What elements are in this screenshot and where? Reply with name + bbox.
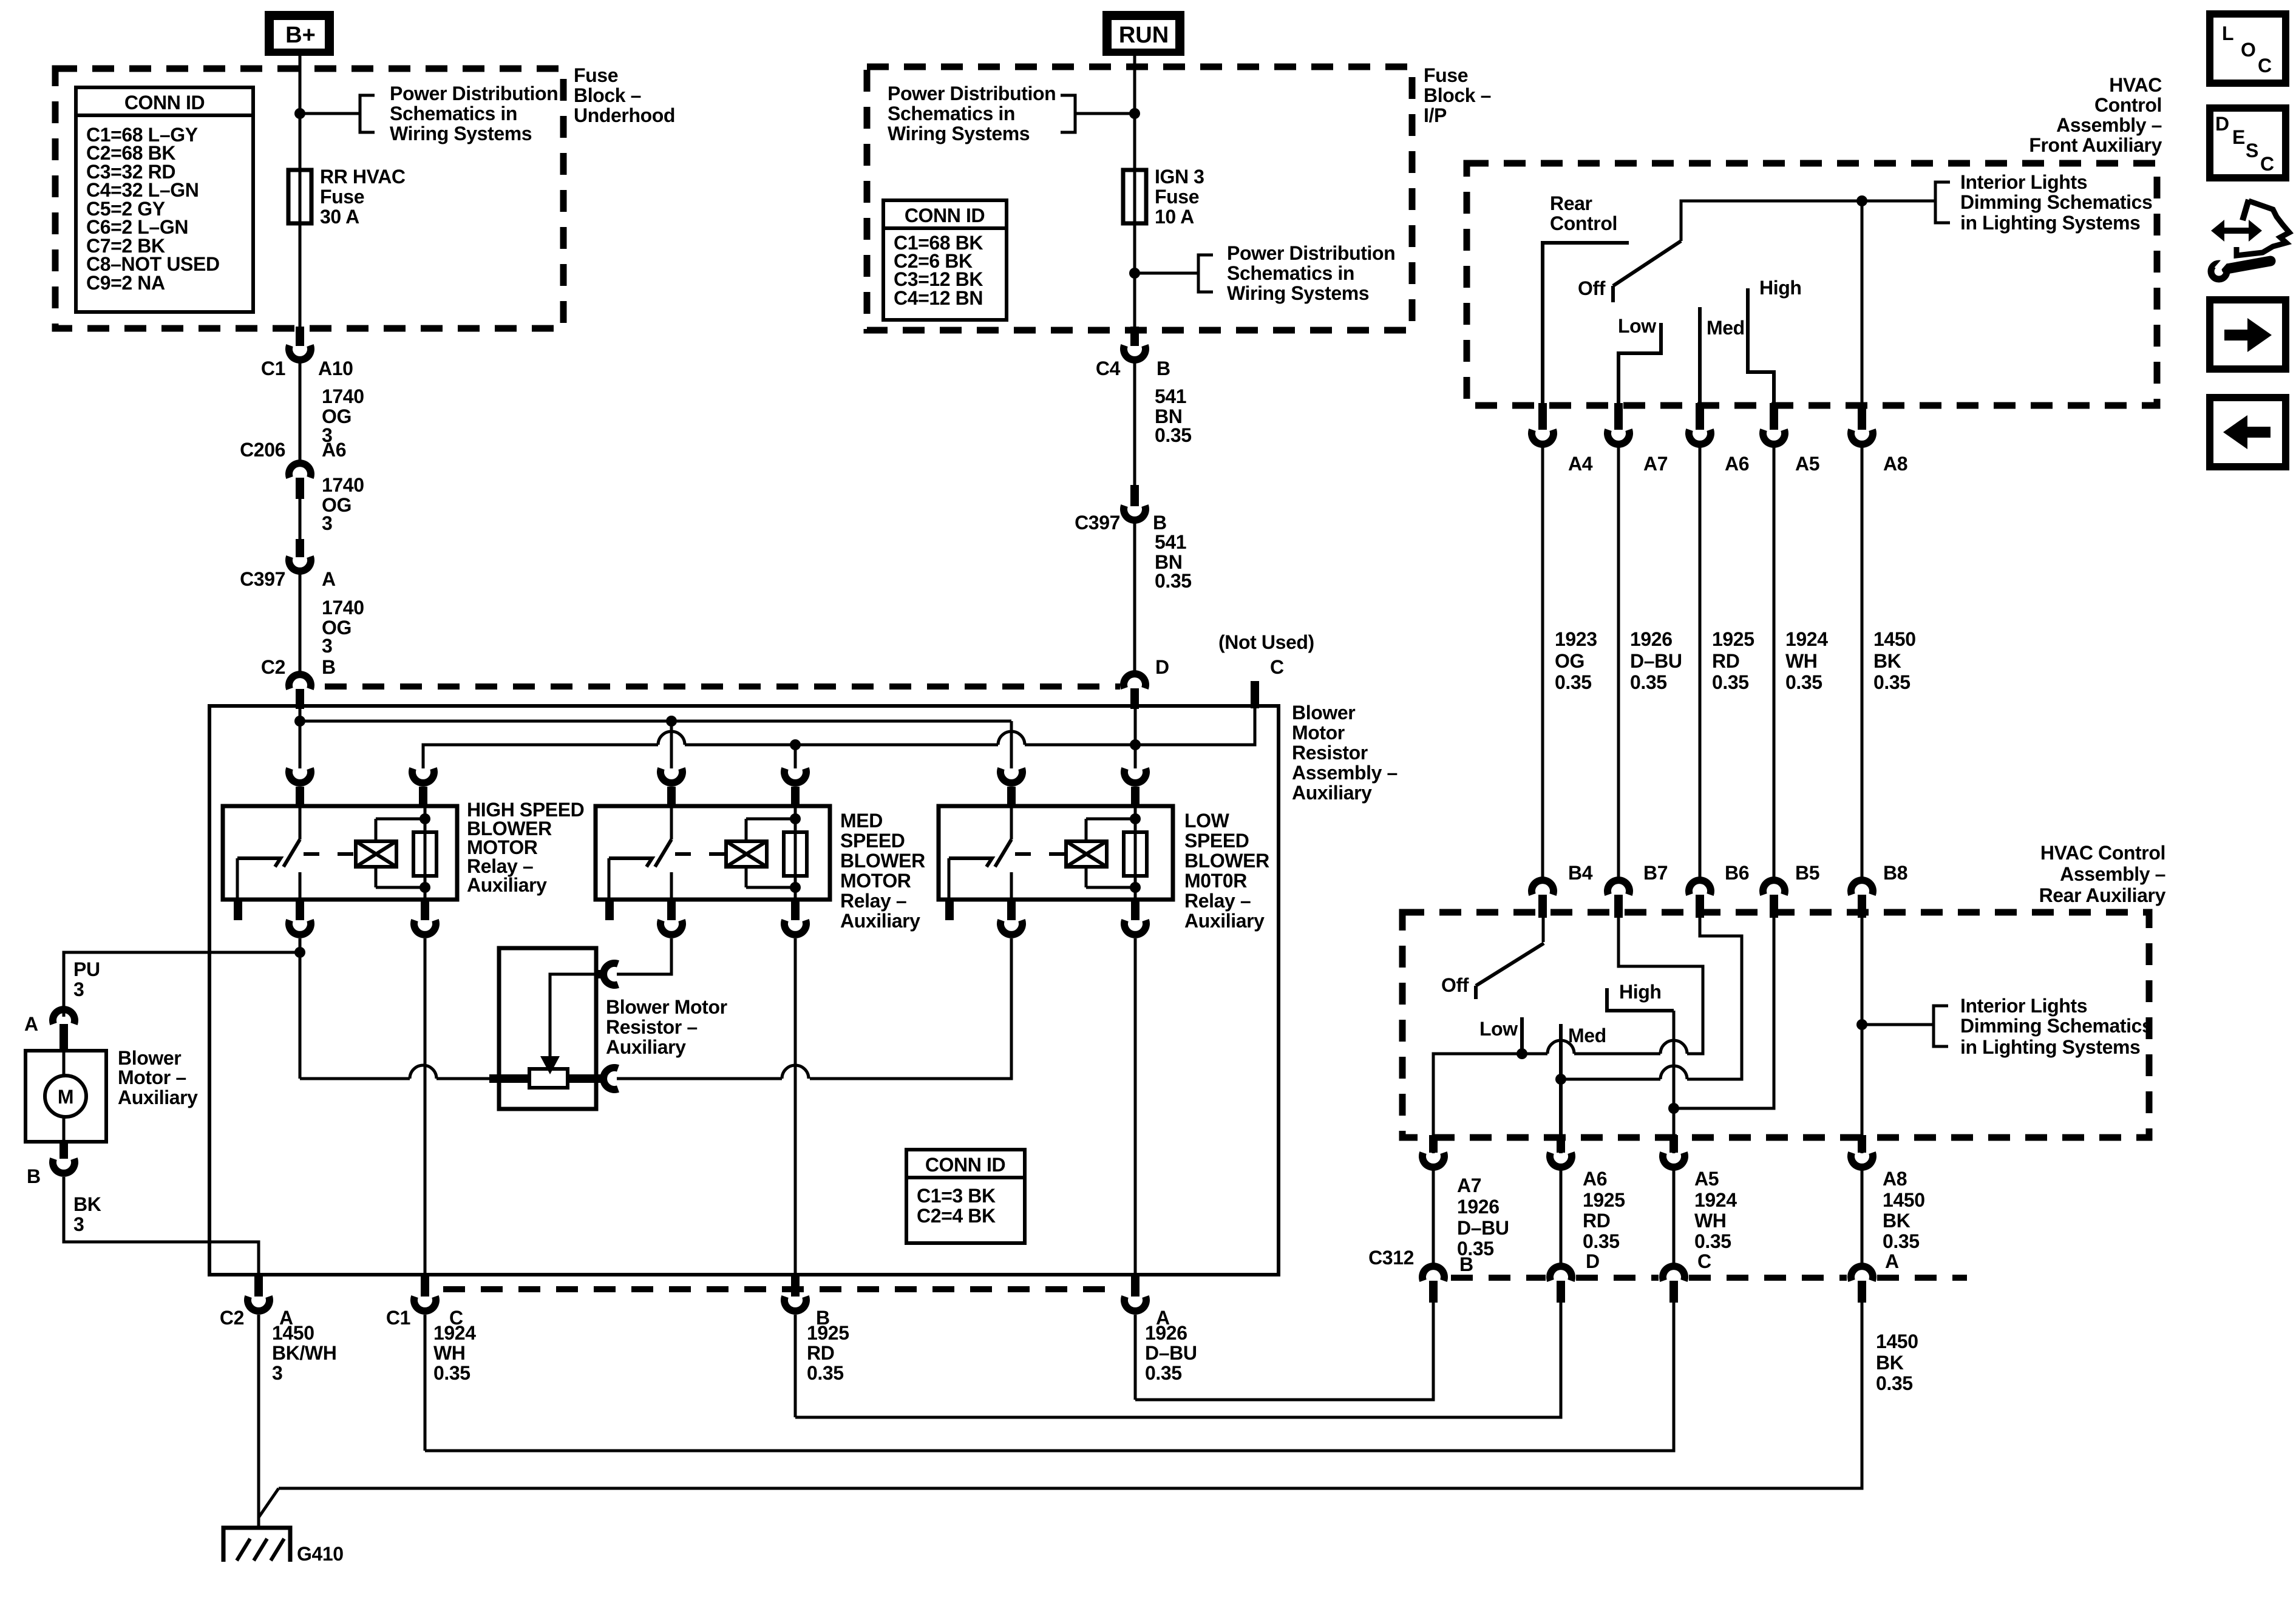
connector high relay coil pin (412, 768, 434, 783)
label stack A6 1925 RD 0.35 (1583, 1168, 1625, 1272)
connector C312 pin A (1851, 1266, 1873, 1281)
connector row dash C312 (1451, 1275, 1546, 1281)
svg-text:Auxiliary: Auxiliary (606, 1036, 686, 1058)
wire 1926 D-BU 0.35 (front) (1617, 447, 1620, 881)
connector B4 (1532, 880, 1554, 895)
wire motor B to C2 A (64, 1177, 259, 1275)
resistor tap arrow (550, 974, 596, 1060)
svg-text:SPEED: SPEED (840, 830, 905, 852)
svg-text:HVAC Control: HVAC Control (2040, 842, 2165, 864)
label Interior Lights Dimming (front) (1960, 171, 2152, 234)
svg-text:Auxiliary: Auxiliary (118, 1086, 198, 1108)
svg-text:D: D (1155, 656, 1169, 678)
svg-text:0.35: 0.35 (1630, 671, 1667, 693)
connector med relay coil low pin (791, 900, 800, 920)
switch blade (front) (1613, 241, 1681, 286)
svg-text:Rear: Rear (1550, 192, 1592, 214)
label 1925 RD 0.35 (bottom) (807, 1322, 849, 1384)
connector B8 (1851, 880, 1873, 895)
label Blower Motor Auxiliary (118, 1047, 198, 1108)
connector resistor low pin (566, 1074, 607, 1083)
svg-text:3: 3 (73, 978, 84, 1000)
wire resistor to low relay with hop (617, 1077, 782, 1080)
wire bracket to RUN feed (1075, 112, 1135, 115)
wire rear low line to B7 (1618, 918, 1703, 1054)
svg-text:Block –: Block – (574, 84, 641, 106)
connector A4 (1538, 403, 1547, 430)
svg-text:Rear Auxiliary: Rear Auxiliary (2039, 884, 2166, 906)
svg-text:C206: C206 (240, 439, 285, 461)
label Blower Motor Resistor Auxiliary (606, 996, 727, 1058)
pin C not used stub (1251, 681, 1259, 708)
svg-text:Underhood: Underhood (574, 104, 675, 126)
blower motor resistor box (499, 948, 596, 1109)
label med speed relay (840, 810, 925, 932)
connector resistor tap pin (596, 970, 607, 978)
wire 1450 below C312 A (279, 1303, 1862, 1488)
wire med coil drop (794, 745, 797, 768)
svg-text:Power Distribution: Power Distribution (390, 83, 558, 104)
resistor element (529, 1069, 568, 1088)
node junction at I/P upper branch (1129, 108, 1140, 119)
svg-text:0.35: 0.35 (1785, 671, 1822, 693)
relay HIGH SPEED BLOWER MOTOR relay auxiliary (223, 806, 457, 900)
connector C1 pin B bottom (791, 1275, 800, 1297)
svg-text:C1: C1 (386, 1307, 410, 1329)
svg-text:A10: A10 (318, 358, 353, 379)
svg-text:1926: 1926 (1457, 1196, 1500, 1218)
connector C1 pin A10 (296, 327, 304, 346)
label 1926 D-BU 0.35 (bottom) (1145, 1322, 1197, 1384)
node high output to motor feed (294, 947, 305, 958)
svg-text:Relay –: Relay – (1184, 890, 1251, 912)
svg-text:A6: A6 (1583, 1168, 1607, 1190)
svg-text:1740: 1740 (322, 474, 364, 496)
wire 1925 RD below C1 B (794, 1315, 797, 1417)
connector med relay common pin (661, 768, 682, 783)
connector B6 (1689, 880, 1711, 895)
svg-text:0.35: 0.35 (1694, 1230, 1731, 1252)
svg-text:C2: C2 (220, 1307, 244, 1329)
svg-text:Fuse: Fuse (1424, 64, 1468, 86)
wire fuse down to connector C1 (299, 223, 302, 328)
wire 1450 BK diagonal to ground (259, 1488, 279, 1517)
label Power Distribution Schematics (I/P upper) (888, 83, 1056, 144)
svg-text:MOTOR: MOTOR (840, 870, 911, 892)
svg-text:Interior Lights: Interior Lights (1960, 171, 2087, 193)
power terminal B+ (265, 11, 334, 56)
svg-text:Dimming Schematics: Dimming Schematics (1960, 191, 2152, 213)
svg-text:Relay –: Relay – (840, 890, 906, 912)
contact High (rear) (1607, 988, 1674, 1011)
svg-text:C2: C2 (261, 656, 285, 678)
blower motor resistor assembly box (209, 706, 1279, 1275)
svg-text:B: B (322, 656, 336, 678)
node junction rear dimming feed (1856, 1019, 1867, 1030)
connector A8 (1858, 403, 1866, 430)
svg-text:Low: Low (1618, 315, 1656, 337)
svg-text:M: M (58, 1086, 73, 1108)
svg-text:3: 3 (272, 1362, 282, 1384)
relay MED SPEED BLOWER MOTOR relay auxiliary (596, 806, 830, 900)
wire rear low line to A7 with hops (1433, 1054, 1547, 1153)
wire 1926 D-BU below C1 A (1134, 1315, 1137, 1400)
label BK 3 (73, 1193, 101, 1235)
wire rear dimming to bracket (1862, 1023, 1934, 1026)
svg-text:Off: Off (1578, 277, 1606, 299)
svg-text:C1=3 BK: C1=3 BK (917, 1185, 996, 1207)
wire 541 BN 0.35 (segment 1) (1133, 360, 1136, 486)
svg-text:LOW: LOW (1184, 810, 1230, 832)
svg-text:CONN ID: CONN ID (124, 92, 205, 114)
svg-text:B6: B6 (1725, 862, 1749, 884)
svg-text:Resistor –: Resistor – (606, 1016, 698, 1038)
svg-text:WH: WH (433, 1342, 466, 1364)
svg-text:A7: A7 (1643, 453, 1668, 475)
wire med relay common drop (670, 721, 673, 768)
wire 1740 OG 3 (segment 1) (299, 360, 302, 463)
label Power Distribution Schematics (I/P lower) (1227, 242, 1395, 304)
svg-text:Assembly –: Assembly – (1292, 762, 1398, 784)
connector med relay coil pin (784, 768, 806, 783)
svg-text:C: C (1697, 1250, 1711, 1272)
connector A5 rear bottom (1669, 1135, 1678, 1153)
svg-text:1924: 1924 (433, 1322, 476, 1344)
svg-text:A6: A6 (322, 439, 346, 461)
ignition terminal RUN (1102, 11, 1184, 56)
icon box arrow right (2210, 300, 2286, 369)
svg-text:C312: C312 (1368, 1247, 1414, 1269)
connector high relay output pin (296, 900, 304, 920)
node High tap (1668, 1103, 1679, 1114)
connector B5 (1763, 880, 1785, 895)
svg-text:C397: C397 (1075, 512, 1120, 534)
wire motor internal top (63, 1051, 66, 1076)
svg-text:1926: 1926 (1630, 628, 1673, 650)
connector row dash C2B to D (325, 683, 1120, 690)
svg-text:A6: A6 (1725, 453, 1749, 475)
svg-text:D–BU: D–BU (1630, 650, 1682, 672)
svg-text:Control: Control (1550, 212, 1617, 234)
connector A6 (1696, 403, 1704, 430)
svg-text:MED: MED (840, 810, 883, 832)
svg-text:B7: B7 (1643, 862, 1668, 884)
connector C1 pin A bottom (1131, 1275, 1140, 1297)
label 1450 BK/WH 3 (272, 1322, 336, 1384)
svg-text:541: 541 (1155, 531, 1186, 553)
connector motor pin B (59, 1142, 68, 1159)
icon box arrow left (2210, 398, 2286, 467)
svg-text:B: B (1153, 512, 1167, 534)
HVAC control assembly front auxiliary dashed box (1467, 163, 2157, 405)
svg-text:0.35: 0.35 (1583, 1230, 1620, 1252)
svg-text:CONN ID: CONN ID (925, 1154, 1005, 1176)
svg-text:Wiring Systems: Wiring Systems (390, 123, 532, 144)
svg-text:A4: A4 (1568, 453, 1593, 475)
svg-text:(Not Used): (Not Used) (1218, 631, 1314, 653)
svg-text:1924: 1924 (1785, 628, 1828, 650)
svg-text:C4: C4 (1096, 358, 1121, 379)
svg-text:WH: WH (1785, 650, 1818, 672)
wire branch to power distribution bracket (I/P lower) (1135, 272, 1198, 275)
wire rear high line to B5 (1674, 918, 1774, 1108)
svg-text:Schematics in: Schematics in (888, 103, 1015, 124)
wire 1925 RD 0.35 (front) (1699, 447, 1702, 881)
svg-text:1740: 1740 (322, 385, 364, 407)
svg-text:in Lighting Systems: in Lighting Systems (1960, 212, 2140, 234)
wire B8 through rear box (1861, 918, 1864, 1153)
med relay unused pin stub (605, 900, 614, 920)
svg-text:A5: A5 (1795, 453, 1819, 475)
svg-text:Block –: Block – (1424, 84, 1491, 106)
wire 1925 below C312 D (795, 1303, 1561, 1417)
svg-text:3: 3 (73, 1213, 84, 1235)
svg-text:0.35: 0.35 (433, 1362, 470, 1384)
svg-text:0.35: 0.35 (1155, 424, 1192, 446)
svg-text:BLOWER: BLOWER (1184, 850, 1269, 872)
svg-text:B+: B+ (285, 22, 316, 48)
connector C4 pin B (1130, 327, 1139, 346)
connector C312 pin B (1422, 1266, 1444, 1281)
node junction at I/P lower branch (1129, 268, 1140, 279)
motor symbol M (45, 1076, 86, 1117)
label PU 3 (73, 958, 100, 1000)
svg-text:A8: A8 (1883, 453, 1907, 475)
svg-text:B: B (1459, 1253, 1473, 1275)
svg-text:1923: 1923 (1555, 628, 1597, 650)
svg-text:B4: B4 (1568, 862, 1593, 884)
svg-text:SPEED: SPEED (1184, 830, 1249, 852)
connector low relay common pin (1000, 768, 1022, 783)
icon box DESC (2210, 108, 2286, 178)
svg-text:Control: Control (2094, 94, 2162, 116)
svg-text:RUN: RUN (1119, 22, 1169, 48)
svg-text:B5: B5 (1795, 862, 1819, 884)
wire 1924 WH below C1 C (424, 1315, 427, 1451)
svg-text:C1: C1 (261, 358, 285, 379)
wires rear pins down to C312 (1432, 1170, 1435, 1265)
wire 1740 OG 3 (segment 2) (299, 499, 302, 540)
svg-text:Motor –: Motor – (118, 1066, 186, 1088)
svg-text:O: O (2241, 39, 2256, 61)
svg-text:1740: 1740 (322, 597, 364, 619)
svg-text:Fuse: Fuse (320, 186, 364, 208)
svg-text:Wiring Systems: Wiring Systems (1227, 282, 1369, 304)
switch blade tick (rear) (1474, 986, 1478, 999)
svg-text:3: 3 (322, 512, 332, 534)
svg-text:3: 3 (322, 635, 332, 657)
svg-text:Assembly –: Assembly – (2056, 114, 2162, 136)
svg-text:RR HVAC: RR HVAC (320, 166, 406, 188)
wire low relay common drop (1010, 721, 1013, 768)
label stack A8 1450 BK 0.35 (1883, 1168, 1925, 1272)
connector C1 pin C bottom (421, 1275, 429, 1297)
svg-text:A7: A7 (1457, 1175, 1481, 1196)
wire 1926 below C312 B (1135, 1303, 1433, 1400)
high relay unused pin stub (234, 900, 242, 920)
svg-text:Med: Med (1568, 1025, 1606, 1046)
connector A5 (1770, 403, 1778, 430)
wire rear high column down to A5 (1673, 1011, 1676, 1153)
wire motor internal bottom (63, 1117, 66, 1142)
connector motor pin A (53, 1009, 75, 1024)
svg-text:Low: Low (1479, 1018, 1518, 1040)
wire ignition coil bus with hops (423, 745, 658, 768)
svg-text:High: High (1759, 277, 1802, 299)
connector low relay coil low pin (1131, 900, 1140, 920)
wire 1740 OG 3 (segment 3) (299, 571, 302, 675)
svg-text:0.35: 0.35 (1876, 1372, 1913, 1394)
bracket power distribution (I/P upper) (1061, 95, 1075, 132)
svg-text:S: S (2246, 140, 2258, 161)
svg-text:Resistor: Resistor (1292, 742, 1368, 764)
connector C397 pin B (ignition) (1130, 485, 1139, 506)
svg-text:Front Auxiliary: Front Auxiliary (2029, 134, 2162, 156)
node junction at power distribution branch (294, 108, 305, 119)
relay LOW SPEED BLOWER MOTOR relay auxiliary (939, 806, 1173, 900)
svg-text:WH: WH (1694, 1210, 1727, 1232)
svg-text:1450: 1450 (272, 1322, 314, 1344)
bracket power distribution (I/P lower) (1198, 255, 1213, 292)
wire 1923 OG 0.35 (1541, 447, 1544, 881)
connector med relay output pin (667, 900, 676, 920)
connector C312 pin D (1550, 1266, 1572, 1281)
svg-text:0.35: 0.35 (1555, 671, 1592, 693)
svg-text:10 A: 10 A (1155, 206, 1194, 228)
svg-text:Auxiliary: Auxiliary (467, 874, 547, 896)
connector B7 (1608, 880, 1629, 895)
svg-text:BK/WH: BK/WH (272, 1342, 336, 1364)
resistor element feed wire with hop (300, 1077, 410, 1080)
wire low coil to C1 A (1134, 938, 1137, 1275)
label Power Distribution Schematics (underhood) (390, 83, 558, 144)
label 1924 WH 0.35 (bottom) (433, 1322, 476, 1384)
HVAC control assembly rear auxiliary dashed box (1402, 912, 2149, 1137)
svg-text:C: C (1270, 656, 1284, 678)
svg-text:BK: BK (1876, 1352, 1904, 1374)
svg-text:Blower: Blower (1292, 702, 1355, 724)
bracket power distribution (underhood) (360, 95, 375, 132)
svg-text:BK: BK (73, 1193, 101, 1215)
contact Med (rear) (1559, 1024, 1563, 1153)
svg-text:C2=4 BK: C2=4 BK (917, 1205, 996, 1227)
svg-text:0.35: 0.35 (1145, 1362, 1182, 1384)
svg-text:Blower: Blower (118, 1047, 181, 1069)
wire fuse down to C4 (1133, 223, 1136, 328)
svg-text:C4=12 BN: C4=12 BN (894, 287, 983, 309)
svg-text:M0T0R: M0T0R (1184, 870, 1247, 892)
wire high relay output down (299, 938, 302, 1079)
connector A8 rear bottom (1858, 1135, 1866, 1153)
svg-text:I/P: I/P (1424, 104, 1447, 126)
low relay unused pin stub (945, 900, 954, 920)
wire B+ bus (299, 709, 302, 768)
svg-text:D: D (2215, 113, 2229, 135)
contact Med (front) (1698, 307, 1702, 412)
svg-text:B8: B8 (1883, 862, 1907, 884)
svg-text:C: C (2258, 55, 2272, 76)
fuse IGN 3 10A (1123, 170, 1146, 223)
svg-text:Auxiliary: Auxiliary (1292, 782, 1372, 804)
icon box LOC (2210, 14, 2286, 83)
connector C312 pin C (1663, 1266, 1685, 1281)
svg-text:D: D (1586, 1250, 1600, 1272)
wire low relay output down (810, 938, 1011, 1079)
node Med tap (1555, 1074, 1566, 1085)
node B+ bus at C2 feed (294, 716, 305, 727)
svg-text:BK: BK (1883, 1210, 1911, 1232)
svg-text:IGN 3: IGN 3 (1155, 166, 1204, 188)
svg-text:0.35: 0.35 (807, 1362, 844, 1384)
label HVAC Control Assembly Front Auxiliary (2029, 74, 2162, 156)
svg-text:in Lighting Systems: in Lighting Systems (1960, 1036, 2140, 1058)
svg-text:PU: PU (73, 958, 100, 980)
svg-text:G410: G410 (297, 1543, 344, 1565)
wire motor feed PU 3 (64, 952, 300, 1017)
svg-text:D–BU: D–BU (1145, 1342, 1197, 1364)
node coil bus at D feed (1130, 739, 1141, 750)
label Fuse Block Underhood (574, 64, 675, 126)
wire 541 BN 0.35 (segment 2) (1133, 523, 1136, 675)
svg-text:Fuse: Fuse (1155, 186, 1199, 208)
wire D feed through bus (1134, 709, 1137, 768)
svg-text:BLOWER: BLOWER (840, 850, 925, 872)
svg-text:1924: 1924 (1694, 1189, 1737, 1211)
label HVAC Control Assembly Rear Auxiliary (2039, 842, 2166, 906)
svg-text:RD: RD (1583, 1210, 1610, 1232)
svg-text:Assembly –: Assembly – (2060, 863, 2165, 885)
svg-text:1450: 1450 (1873, 628, 1916, 650)
svg-text:1450: 1450 (1883, 1189, 1925, 1211)
wire branch to power distribution bracket (300, 112, 360, 115)
svg-text:High: High (1619, 981, 1662, 1003)
svg-text:Interior Lights: Interior Lights (1960, 995, 2087, 1017)
contact Low stub (rear) (1520, 1017, 1524, 1054)
connector row dash C1 (443, 1286, 1120, 1292)
label Rear Control (1550, 192, 1617, 234)
svg-text:0.35: 0.35 (1155, 570, 1192, 592)
svg-text:Power Distribution: Power Distribution (888, 83, 1056, 104)
connector C2 pin A bottom (254, 1275, 263, 1297)
svg-text:1925: 1925 (1712, 628, 1754, 650)
svg-text:0.35: 0.35 (1883, 1230, 1920, 1252)
wire C2 A to ground G410 (257, 1315, 260, 1528)
label low speed relay (1184, 810, 1269, 932)
contact High (front) (1748, 288, 1774, 412)
icon hand with arrows and wrench (2211, 200, 2289, 279)
svg-text:HVAC: HVAC (2109, 74, 2162, 96)
svg-text:541: 541 (1155, 385, 1186, 407)
connector low relay coil pin (1124, 768, 1146, 783)
svg-text:A: A (322, 568, 336, 590)
svg-text:1925: 1925 (1583, 1189, 1625, 1211)
svg-text:B: B (1156, 358, 1170, 379)
svg-text:Schematics in: Schematics in (390, 103, 517, 124)
node Low tap (1517, 1048, 1527, 1059)
svg-text:Fuse: Fuse (574, 64, 618, 86)
svg-text:Motor: Motor (1292, 722, 1345, 744)
svg-text:E: E (2232, 126, 2245, 148)
node B+ bus at med relay (666, 716, 677, 727)
label Interior Lights Dimming (rear) (1960, 995, 2152, 1058)
wire B+ down to fuse (299, 56, 302, 170)
wire 1450 BK 0.35 (front) (1861, 447, 1864, 881)
svg-text:L: L (2222, 22, 2233, 44)
svg-text:A: A (24, 1013, 38, 1035)
wire high coil to C1 C (424, 938, 427, 1275)
bracket interior lights (front) (1935, 182, 1950, 223)
svg-text:Auxiliary: Auxiliary (840, 910, 920, 932)
